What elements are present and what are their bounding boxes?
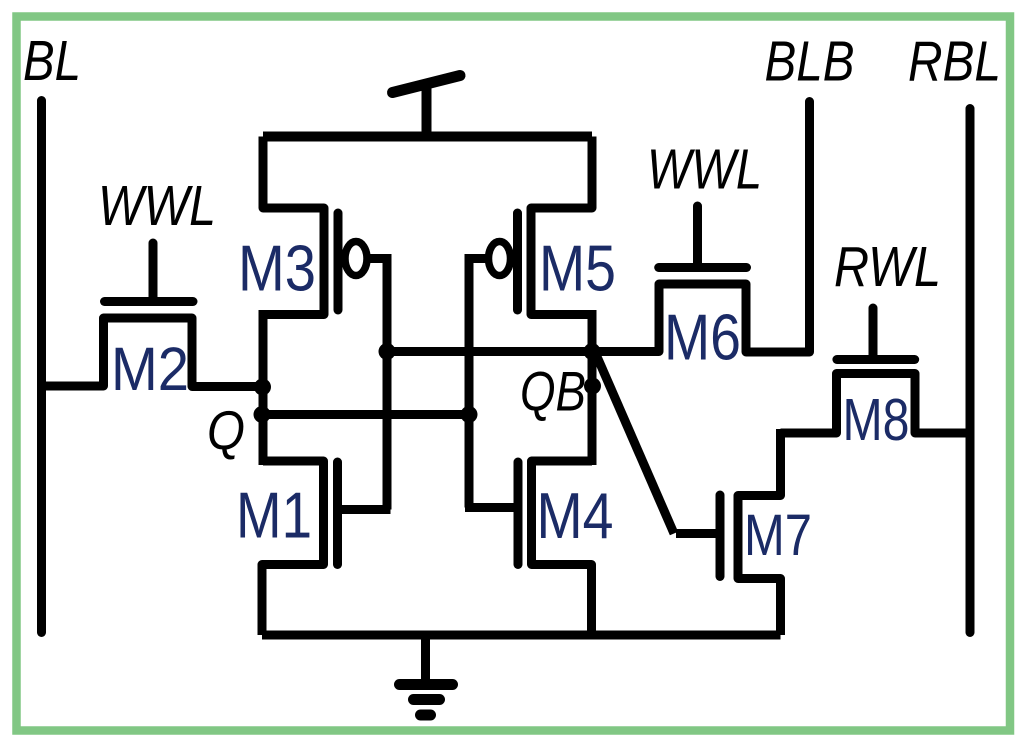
junction dot QB upper [584,343,601,360]
wire RBL read bit line [966,109,975,633]
svg-text:BLB: BLB [765,30,855,94]
svg-text:M2: M2 [111,335,189,403]
svg-text:Q: Q [207,399,245,461]
transistor M7 (NMOS read driver) [676,429,812,635]
junction dot Q lower [254,406,271,423]
svg-text:WWL: WWL [98,174,216,238]
junction dot Q upper [254,379,271,396]
transistor M4 (NMOS) [465,461,614,635]
wire diagonal QB to M7 gate [595,352,674,534]
junction dot M5 gate to Q line [461,406,478,423]
wire node QB column [588,310,597,465]
svg-text:QB: QB [520,360,586,423]
transistor M3 (PMOS) [238,137,392,315]
wire Q cross-couple line [262,410,469,419]
wire gate column Q side (M5/M4 gates) [465,259,474,508]
wire BLB bit line [805,102,814,353]
svg-text:WWL: WWL [647,138,762,202]
svg-text:RWL: RWL [834,235,941,299]
svg-text:M1: M1 [236,479,312,552]
transistor M5 (PMOS) [465,137,617,315]
power VDD symbol [393,76,461,142]
transistor M6 (NMOS access) [592,206,810,374]
ground symbol [400,635,453,715]
transistor M8 (NMOS read access) [781,308,971,453]
junction dot M3 gate to QB line [379,343,396,360]
wire ground rail [262,631,781,640]
wire node Q column [259,310,268,465]
junction dot QB lower [584,378,601,395]
wire BL bit line [37,101,46,633]
wire gate column QB side (M3/M1 gates) [383,259,392,510]
transistor M1 (NMOS) [236,461,391,635]
svg-text:M7: M7 [744,503,812,568]
svg-text:M6: M6 [664,301,741,374]
transistor M2 (NMOS access) [42,243,263,403]
svg-text:M5: M5 [539,232,616,305]
svg-text:RBL: RBL [908,30,1001,94]
svg-text:BL: BL [23,29,81,93]
svg-text:M3: M3 [238,232,316,305]
wire VDD rail [263,132,592,142]
svg-text:M4: M4 [537,479,614,552]
wire QB cross-couple line [386,347,592,356]
svg-text:M8: M8 [843,387,910,453]
